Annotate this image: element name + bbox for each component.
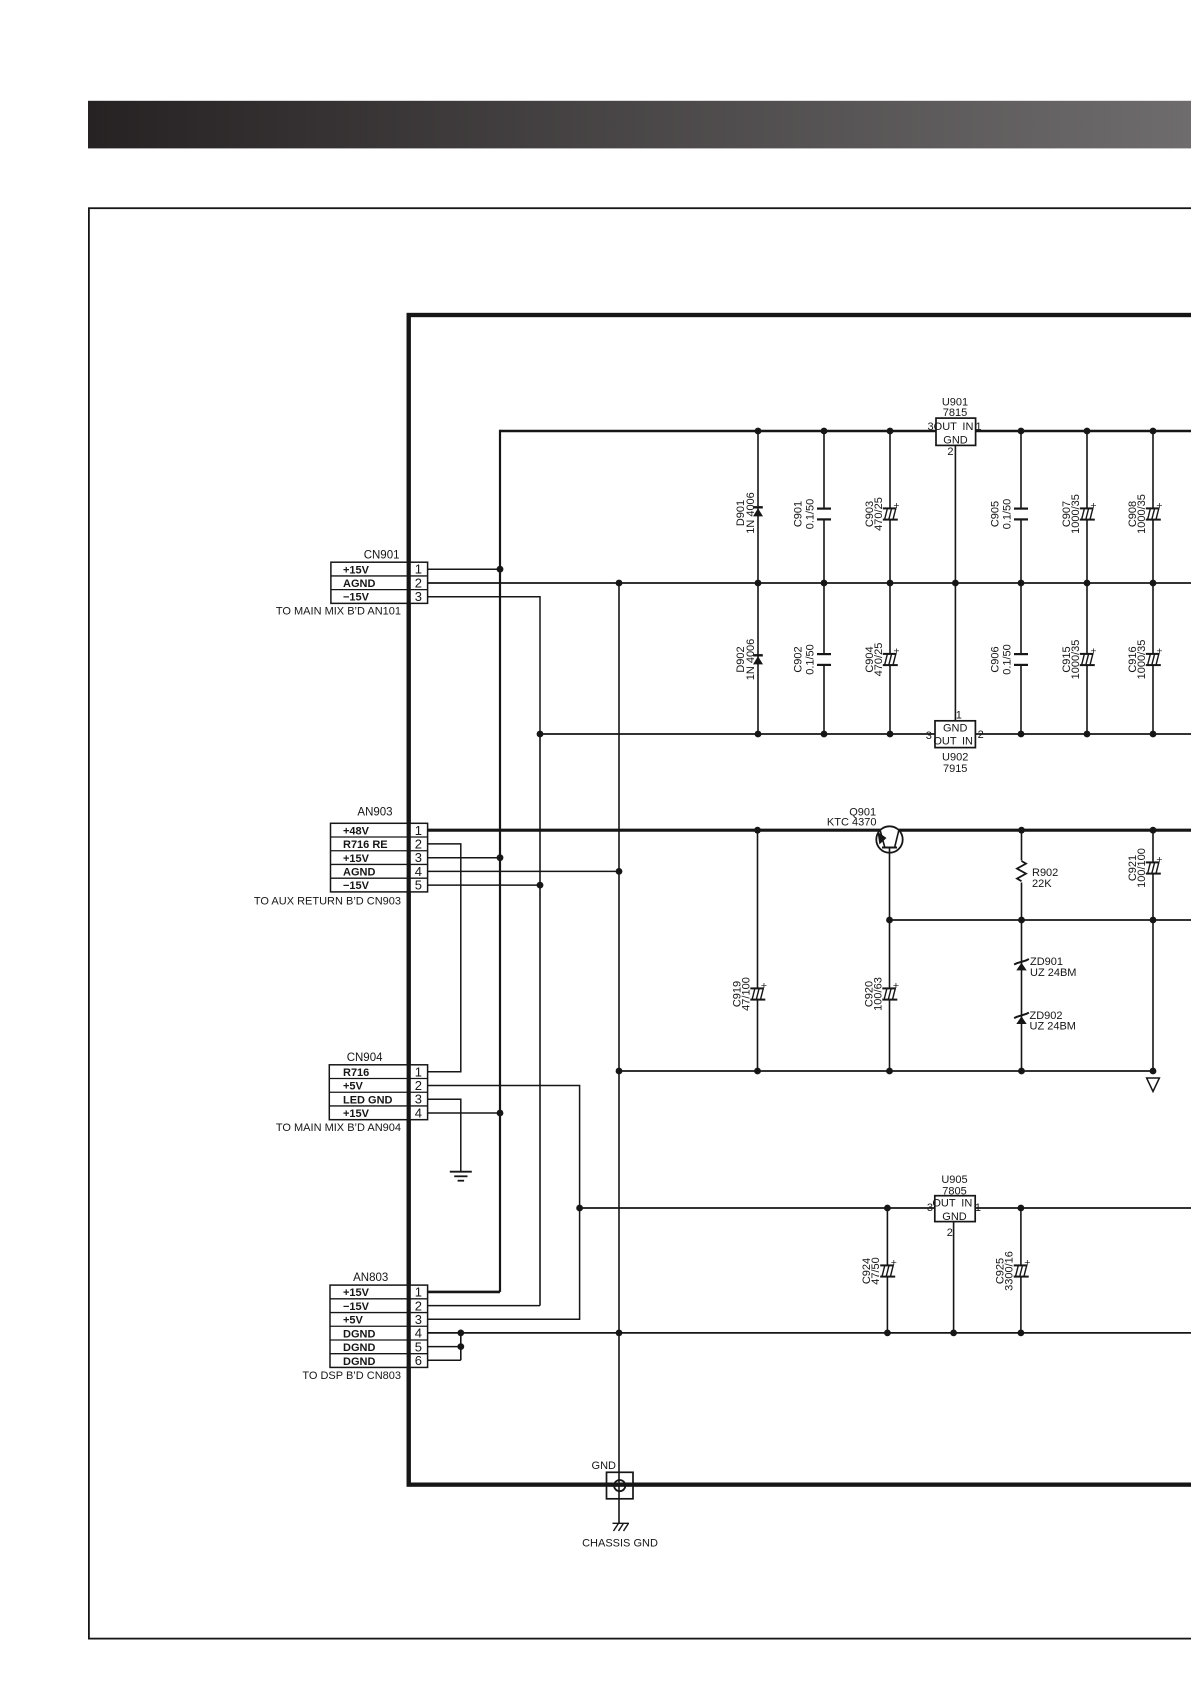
svg-text:LED GND: LED GND <box>343 1094 393 1106</box>
svg-text:AN803: AN803 <box>353 1272 388 1284</box>
svg-text:7805: 7805 <box>942 1186 966 1198</box>
svg-text:TO DSP B’D CN803: TO DSP B’D CN803 <box>302 1370 401 1382</box>
svg-text:+: + <box>761 980 767 992</box>
svg-text:5: 5 <box>415 878 422 893</box>
svg-text:3: 3 <box>927 1202 933 1214</box>
svg-text:1000/35: 1000/35 <box>1136 640 1148 680</box>
svg-text:R716 RE: R716 RE <box>343 839 388 851</box>
svg-text:AGND: AGND <box>343 867 375 879</box>
svg-text:2: 2 <box>947 1227 953 1239</box>
svg-text:1: 1 <box>956 710 962 722</box>
svg-text:7815: 7815 <box>943 407 967 419</box>
svg-text:+48V: +48V <box>343 825 370 837</box>
svg-text:−15V: −15V <box>343 1301 370 1313</box>
svg-text:0.1/50: 0.1/50 <box>805 499 817 530</box>
svg-text:GND: GND <box>942 1211 967 1223</box>
svg-text:+: + <box>893 645 899 657</box>
svg-text:KTC 4370: KTC 4370 <box>827 817 877 829</box>
svg-text:GND: GND <box>943 723 968 735</box>
svg-text:C905: C905 <box>990 501 1002 527</box>
svg-text:DGND: DGND <box>343 1342 375 1354</box>
svg-text:DGND: DGND <box>343 1328 375 1340</box>
svg-text:1000/35: 1000/35 <box>1070 494 1082 534</box>
svg-text:2: 2 <box>978 729 984 741</box>
svg-text:6: 6 <box>415 1353 422 1368</box>
svg-text:7915: 7915 <box>943 763 967 775</box>
svg-text:U905: U905 <box>941 1174 967 1186</box>
svg-text:GND: GND <box>592 1460 617 1472</box>
svg-text:100/100: 100/100 <box>1136 848 1148 888</box>
svg-text:22K: 22K <box>1032 878 1052 890</box>
svg-text:U902: U902 <box>942 752 968 764</box>
svg-text:0.1/50: 0.1/50 <box>1002 644 1014 675</box>
svg-text:+: + <box>893 500 899 512</box>
svg-text:TO AUX RETURN B’D CN903: TO AUX RETURN B’D CN903 <box>254 896 401 908</box>
svg-text:CHASSIS GND: CHASSIS GND <box>582 1538 658 1550</box>
svg-text:1: 1 <box>975 1202 981 1214</box>
svg-text:0.1/50: 0.1/50 <box>805 644 817 675</box>
svg-text:+15V: +15V <box>343 1108 370 1120</box>
svg-text:3: 3 <box>926 730 932 742</box>
svg-text:R716: R716 <box>343 1067 369 1079</box>
svg-text:1N 4006: 1N 4006 <box>745 639 757 681</box>
svg-text:C901: C901 <box>793 501 805 527</box>
svg-text:+15V: +15V <box>343 1287 370 1299</box>
svg-text:4: 4 <box>415 1105 422 1120</box>
svg-text:C902: C902 <box>793 646 805 672</box>
svg-text:47/50: 47/50 <box>870 1257 882 1285</box>
svg-text:1N 4006: 1N 4006 <box>745 492 757 534</box>
svg-text:+5V: +5V <box>343 1315 364 1327</box>
svg-text:TO MAIN MIX B’D AN101: TO MAIN MIX B’D AN101 <box>276 606 401 618</box>
svg-text:IN: IN <box>962 735 973 747</box>
svg-text:+: + <box>893 980 899 992</box>
svg-text:3: 3 <box>928 421 934 433</box>
svg-text:2: 2 <box>947 446 953 458</box>
svg-text:OUT: OUT <box>934 421 958 433</box>
svg-text:0.1/50: 0.1/50 <box>1002 499 1014 530</box>
svg-text:+: + <box>1156 500 1162 512</box>
svg-text:47/100: 47/100 <box>740 977 752 1011</box>
svg-text:+: + <box>1090 645 1096 657</box>
svg-text:IN: IN <box>962 421 973 433</box>
svg-text:DGND: DGND <box>343 1356 375 1368</box>
svg-text:1: 1 <box>975 421 981 433</box>
svg-text:+15V: +15V <box>343 564 370 576</box>
svg-text:+5V: +5V <box>343 1081 364 1093</box>
svg-text:−15V: −15V <box>343 880 370 892</box>
svg-text:TO MAIN MIX B’D AN904: TO MAIN MIX B’D AN904 <box>276 1122 401 1134</box>
svg-text:100/63: 100/63 <box>872 977 884 1011</box>
svg-text:+: + <box>1156 645 1162 657</box>
svg-text:UZ 24BM: UZ 24BM <box>1030 967 1076 979</box>
svg-text:1000/35: 1000/35 <box>1070 640 1082 680</box>
svg-text:IN: IN <box>961 1198 972 1210</box>
svg-text:CN904: CN904 <box>347 1052 383 1064</box>
svg-text:UZ 24BM: UZ 24BM <box>1030 1021 1076 1033</box>
svg-text:+: + <box>1024 1257 1030 1269</box>
svg-text:AN903: AN903 <box>357 807 392 819</box>
svg-text:+: + <box>1090 500 1096 512</box>
svg-text:1000/35: 1000/35 <box>1136 494 1148 534</box>
svg-text:3300/16: 3300/16 <box>1004 1251 1016 1291</box>
svg-text:+: + <box>1156 854 1162 866</box>
svg-text:OUT: OUT <box>932 1198 956 1210</box>
svg-text:−15V: −15V <box>343 592 370 604</box>
svg-text:3: 3 <box>415 589 422 604</box>
svg-text:470/25: 470/25 <box>873 497 885 531</box>
svg-text:OUT: OUT <box>933 735 957 747</box>
svg-text:470/25: 470/25 <box>873 643 885 677</box>
svg-text:CN901: CN901 <box>364 550 400 562</box>
svg-text:C906: C906 <box>990 646 1002 672</box>
svg-text:AGND: AGND <box>343 578 375 590</box>
svg-text:+15V: +15V <box>343 853 370 865</box>
svg-text:GND: GND <box>943 435 968 447</box>
svg-text:+: + <box>891 1257 897 1269</box>
